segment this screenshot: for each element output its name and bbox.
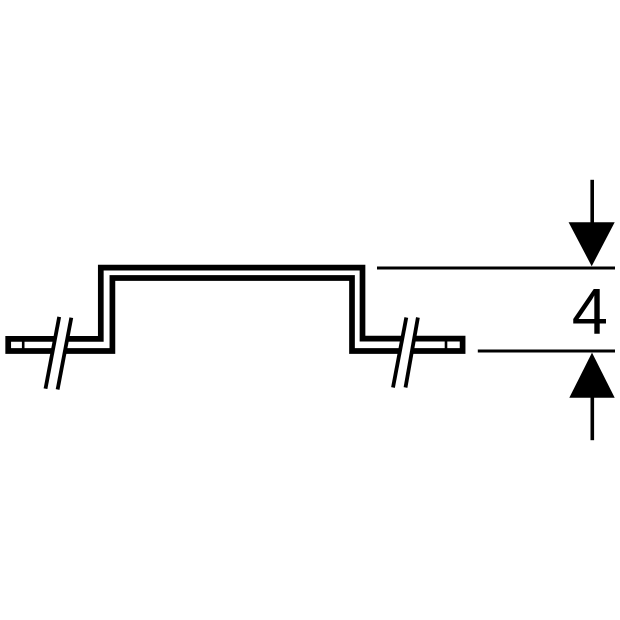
upper dimension line [377, 267, 615, 270]
right break line 2 [406, 318, 418, 388]
upper arrow leader line [590, 180, 594, 225]
left break line 2 [58, 318, 72, 390]
lower dimension line [478, 350, 615, 353]
lower arrow head [569, 353, 614, 398]
right break gap [393, 318, 418, 388]
right break line 1 [393, 318, 406, 388]
left end tick [22, 340, 25, 350]
upper arrow head [569, 222, 615, 266]
left break line 1 [46, 317, 60, 389]
lower arrow leader line [591, 396, 595, 440]
svg-text:4: 4 [572, 275, 608, 348]
right end tick [445, 340, 448, 350]
hat profile sheet outline [8, 268, 462, 351]
left break gap [46, 317, 72, 390]
